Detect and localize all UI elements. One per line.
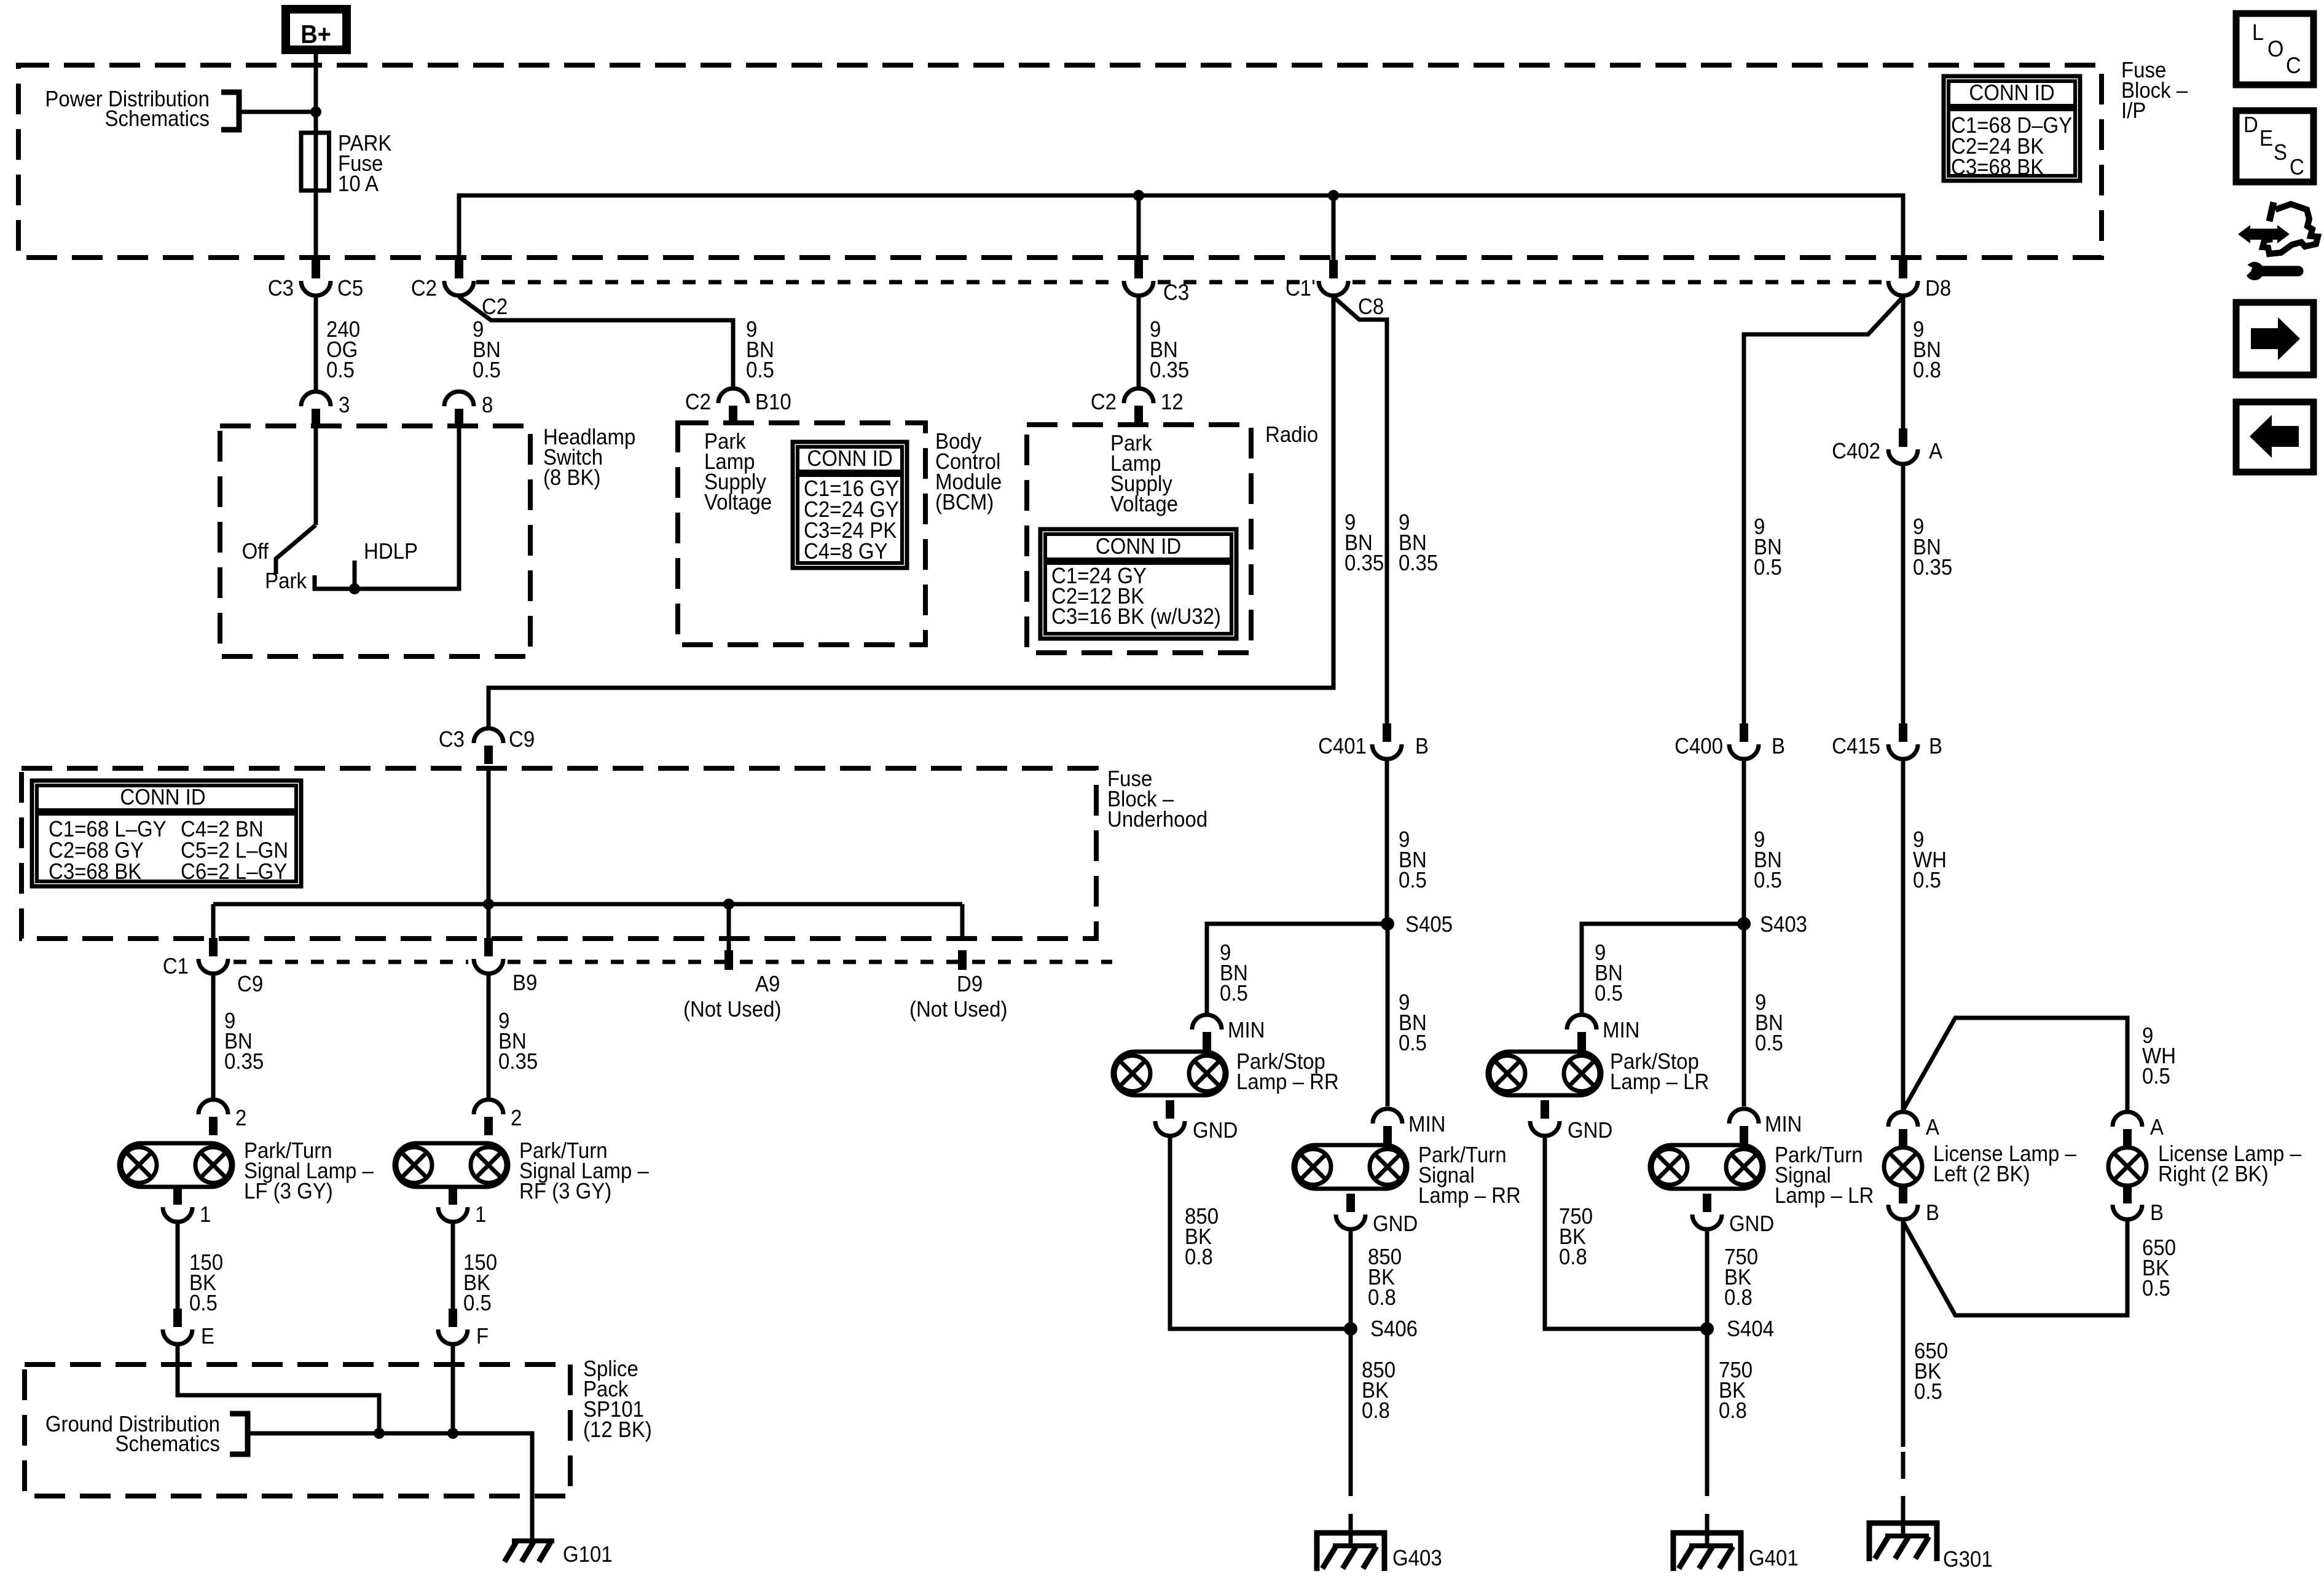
label 750 BK 0.8 right	[1724, 1245, 1758, 1310]
label C8	[1358, 295, 1384, 320]
svg-text:Left (2 BK): Left (2 BK)	[1933, 1162, 2030, 1187]
wire D8 to C400	[1744, 297, 1903, 724]
svg-text:3: 3	[339, 393, 350, 418]
connector D8	[1888, 260, 1918, 296]
svg-text:C5: C5	[337, 277, 363, 301]
park stop lamp LR	[1488, 1052, 1601, 1095]
svg-text:B: B	[1415, 734, 1429, 759]
label C415	[1832, 734, 1880, 759]
icon wrench	[2243, 262, 2298, 280]
label B10	[755, 390, 791, 415]
label Splice Pack SP101 (12 BK)	[583, 1357, 652, 1443]
svg-text:E: E	[2259, 127, 2273, 151]
wire junction to D9 drop	[960, 904, 965, 940]
svg-text:(Not Used): (Not Used)	[683, 998, 781, 1022]
label D8	[1925, 277, 1951, 301]
svg-text:S406: S406	[1370, 1317, 1418, 1342]
label GND stop RR	[1193, 1119, 1238, 1143]
wire C2 to BCM B10	[459, 297, 733, 390]
wire C3 to radio 12	[1137, 297, 1141, 390]
label 650 BK 0.5 left	[1914, 1339, 1948, 1404]
wire license right to left join	[1903, 1221, 2127, 1315]
wire bus drop to C1	[1332, 195, 1336, 261]
svg-text:CONN ID: CONN ID	[120, 786, 205, 810]
park turn signal lamp LR	[1650, 1145, 1764, 1189]
label park turn LF	[244, 1139, 374, 1204]
label 2 LF	[235, 1106, 246, 1131]
label B at C401	[1415, 734, 1429, 759]
svg-text:Schematics: Schematics	[105, 107, 210, 132]
label C5	[337, 277, 363, 301]
label E	[201, 1325, 214, 1349]
svg-text:RF (3 GY): RF (3 GY)	[519, 1179, 611, 1204]
svg-text:A9: A9	[755, 972, 780, 997]
svg-text:C6=2 L–GY: C6=2 L–GY	[181, 860, 287, 884]
conn id table underhood	[32, 781, 301, 886]
svg-text:0.8: 0.8	[1368, 1286, 1396, 1310]
connector E	[163, 1309, 192, 1344]
connector GND stop LR	[1530, 1100, 1560, 1136]
ground G301	[1869, 1523, 1937, 1561]
svg-text:C2: C2	[411, 277, 437, 301]
svg-text:0.5: 0.5	[326, 358, 355, 383]
wire C8 branch to C401	[1333, 297, 1387, 724]
bracket power distribution	[221, 92, 239, 130]
ground G101	[504, 1541, 554, 1562]
wire S404 to G401	[1705, 1329, 1710, 1530]
label C2 at 12	[1091, 390, 1117, 415]
label 650 BK 0.5 right	[2142, 1236, 2176, 1301]
connector B license left	[1888, 1184, 1918, 1219]
label C2 at B10	[685, 390, 711, 415]
label C3 radio feed	[1163, 281, 1189, 305]
svg-text:0.8: 0.8	[1719, 1399, 1747, 1423]
svg-text:GND: GND	[1729, 1212, 1774, 1237]
connector MIN park stop LR	[1567, 1015, 1596, 1050]
junction dot bus at C1	[1328, 190, 1339, 201]
headlamp switch dashed box	[220, 426, 530, 656]
connector 1 LF	[163, 1186, 192, 1222]
svg-text:L: L	[2252, 20, 2264, 45]
svg-text:C402: C402	[1832, 439, 1880, 464]
svg-text:0.35: 0.35	[1913, 556, 1952, 580]
ground distribution wire	[248, 1433, 532, 1541]
wire S403 to MIN turn LR	[1742, 924, 1746, 1106]
wire D8 to C402	[1901, 297, 1906, 430]
svg-text:G301: G301	[1943, 1548, 1993, 1572]
label C1 underhood	[163, 955, 189, 979]
svg-text:0.8: 0.8	[1185, 1245, 1213, 1270]
park turn signal lamp RR	[1294, 1145, 1407, 1189]
label C9 underhood	[237, 972, 263, 997]
junction line underhood	[213, 902, 962, 907]
label C3	[268, 277, 294, 301]
label Fuse Block - I/P	[2121, 58, 2188, 124]
connector pin 8	[444, 392, 474, 427]
svg-text:0.5: 0.5	[746, 358, 774, 383]
svg-text:2: 2	[511, 1106, 522, 1131]
label 850 BK 0.8 right	[1368, 1245, 1402, 1310]
svg-text:C3: C3	[439, 728, 465, 752]
svg-text:Underhood: Underhood	[1107, 808, 1207, 832]
wire S405 to MIN park stop RR	[1207, 924, 1388, 1013]
park turn signal lamp RF	[395, 1143, 508, 1187]
svg-text:S405: S405	[1405, 913, 1453, 937]
svg-text:Lamp – RR: Lamp – RR	[1418, 1184, 1521, 1208]
label 9 BN 0.5 stop LR	[1595, 941, 1623, 1006]
wire B9 to RF lamp	[487, 975, 491, 1100]
connector C401/B	[1372, 723, 1402, 759]
connector MIN park stop RR	[1192, 1015, 1222, 1050]
bus wire park lamp feed	[459, 195, 1903, 261]
label G101	[563, 1543, 613, 1567]
svg-text:C415: C415	[1832, 734, 1880, 759]
label 1 RF	[475, 1203, 486, 1227]
svg-text:0.5: 0.5	[2142, 1277, 2170, 1301]
label G401	[1749, 1546, 1799, 1571]
svg-text:C9: C9	[237, 972, 263, 997]
license lamp right	[2108, 1148, 2146, 1186]
icon box LOC	[2236, 14, 2314, 85]
icon box arrow left	[2236, 402, 2314, 472]
svg-text:D9: D9	[957, 972, 983, 997]
svg-text:C2: C2	[1091, 390, 1117, 415]
label C9	[509, 728, 535, 752]
svg-text:Lamp – LR: Lamp – LR	[1775, 1184, 1874, 1208]
wire C400 to S403	[1742, 760, 1746, 924]
connector C402/A	[1888, 428, 1918, 464]
label 9 BN 0.5 C400-S403	[1754, 828, 1782, 893]
svg-text:0.5: 0.5	[473, 358, 501, 383]
svg-text:MIN: MIN	[1603, 1018, 1639, 1043]
svg-text:B: B	[1926, 1201, 1939, 1226]
svg-text:0.5: 0.5	[1914, 1380, 1942, 1404]
svg-text:Off: Off	[242, 540, 269, 564]
junction dot splice E	[374, 1428, 385, 1439]
svg-text:G101: G101	[563, 1543, 613, 1567]
label A left	[1926, 1116, 1940, 1140]
connector 12	[1124, 388, 1153, 424]
svg-text:0.8: 0.8	[1724, 1286, 1753, 1310]
label Off	[242, 540, 269, 564]
label 150 BK 0.5 RF	[463, 1251, 497, 1316]
label 12	[1161, 390, 1184, 415]
svg-text:Radio: Radio	[1265, 423, 1318, 447]
label 9 BN 0.8	[1913, 318, 1941, 383]
wire LF lamp to E	[176, 1223, 180, 1309]
park turn signal lamp LF	[119, 1143, 233, 1187]
svg-text:0.35: 0.35	[224, 1050, 264, 1074]
svg-text:C9: C9	[509, 728, 535, 752]
label C400	[1674, 734, 1723, 759]
wire S406 to G403	[1349, 1329, 1353, 1530]
ground G403	[1317, 1533, 1384, 1571]
svg-text:D: D	[2244, 113, 2258, 138]
label 3	[339, 393, 350, 418]
label B right	[2150, 1201, 2164, 1226]
svg-text:C3=68 BK: C3=68 BK	[1951, 156, 2044, 180]
wire B+ down into fuse block	[314, 54, 318, 133]
label 9 BN 0.35 RF	[498, 1009, 538, 1074]
icon box DESC	[2236, 111, 2314, 182]
connector A license left	[1888, 1112, 1918, 1148]
svg-text:CONN ID: CONN ID	[1096, 535, 1181, 559]
label B at C415	[1929, 734, 1942, 759]
label 9 BN 0.5 C401-S405	[1399, 828, 1427, 893]
svg-text:0.35: 0.35	[498, 1050, 538, 1074]
splice S406	[1344, 1322, 1357, 1336]
label park turn RR	[1418, 1143, 1521, 1208]
wire RF lamp to F	[451, 1223, 455, 1309]
label 750 BK 0.8 ground	[1719, 1358, 1753, 1423]
junction dot park wire	[349, 583, 360, 594]
svg-text:B: B	[1929, 734, 1942, 759]
label 150 BK 0.5 LF	[189, 1251, 223, 1316]
label B9	[512, 971, 537, 996]
label S403	[1760, 913, 1807, 937]
svg-text:LF (3 GY): LF (3 GY)	[244, 1179, 333, 1204]
connector C3/C5	[301, 260, 331, 296]
connector B10	[718, 388, 748, 424]
label wire 9 BN 0.35 radio	[1150, 318, 1189, 383]
icon adjust arrow	[2238, 225, 2290, 243]
svg-text:0.5: 0.5	[189, 1291, 218, 1316]
label 9 BN 0.35 C402	[1913, 515, 1952, 580]
wire C5 to switch pin 3	[314, 297, 318, 390]
label A at C402	[1929, 439, 1943, 464]
svg-text:B: B	[1772, 734, 1785, 759]
svg-text:Right (2 BK): Right (2 BK)	[2158, 1162, 2269, 1187]
splice S405	[1381, 917, 1394, 931]
junction dot underhood A9	[723, 899, 734, 910]
fuse PARK 10A	[301, 133, 329, 191]
wire C1 down and left to C9	[489, 297, 1333, 728]
svg-text:1: 1	[200, 1203, 211, 1227]
label wire 9 BN 0.5 B10	[746, 318, 774, 383]
label license lamp left	[1933, 1142, 2077, 1187]
svg-text:0.5: 0.5	[1399, 1031, 1427, 1056]
label 9 BN 0.35 C9 wire	[1345, 511, 1384, 576]
svg-text:C: C	[2286, 53, 2301, 79]
stub A9 not used	[724, 950, 733, 970]
label S405	[1405, 913, 1453, 937]
svg-text:GND: GND	[1568, 1119, 1612, 1143]
switch wiper to Off	[276, 525, 316, 574]
svg-text:B9: B9	[512, 971, 537, 996]
label C3 at C9	[439, 728, 465, 752]
svg-text:C2: C2	[685, 390, 711, 415]
label park stop LR	[1610, 1050, 1709, 1095]
wire license left to G301	[1901, 1221, 1906, 1521]
label 850 BK 0.8 ground	[1362, 1358, 1396, 1423]
label 9 WH 0.5 left	[1913, 828, 1947, 893]
svg-text:S: S	[2274, 141, 2287, 165]
connector 2 LF	[198, 1100, 228, 1135]
wire F into splice pack	[451, 1345, 455, 1433]
svg-text:0.8: 0.8	[1913, 358, 1941, 383]
svg-text:B+: B+	[300, 20, 331, 49]
label Park	[265, 569, 307, 594]
label wire 240 OG 0.5	[326, 318, 360, 383]
HDLP contact tick	[353, 561, 357, 589]
svg-text:S404: S404	[1727, 1317, 1774, 1342]
svg-text:Park: Park	[265, 569, 307, 594]
svg-text:(Not Used): (Not Used)	[909, 998, 1007, 1022]
svg-text:D8: D8	[1925, 277, 1951, 301]
label MIN turn RR	[1408, 1112, 1445, 1137]
label 850 BK 0.8 left	[1185, 1205, 1219, 1270]
label D9	[957, 972, 983, 997]
ground G401	[1673, 1533, 1741, 1571]
label C401	[1318, 734, 1367, 759]
label Body Control Module BCM	[935, 430, 1002, 515]
label park turn LR	[1775, 1143, 1874, 1208]
label 9 WH 0.5 right	[2142, 1024, 2176, 1089]
connector C400/B	[1729, 723, 1759, 759]
label D9 not used	[909, 998, 1007, 1022]
svg-text:B: B	[2150, 1201, 2164, 1226]
svg-text:(12 BK): (12 BK)	[583, 1418, 652, 1443]
svg-text:0.35: 0.35	[1399, 551, 1438, 576]
connector A license right	[2113, 1112, 2142, 1148]
label C2 left	[411, 277, 437, 301]
svg-text:12: 12	[1161, 390, 1184, 415]
label Fuse Block - Underhood	[1107, 767, 1207, 832]
wire pin 3 into switch	[314, 426, 318, 525]
connector B license right	[2113, 1184, 2142, 1219]
wire junction to B9 drop	[487, 904, 491, 940]
wire C9 into underhood box	[474, 728, 503, 764]
label B left	[1926, 1201, 1939, 1226]
icon box arrow right	[2236, 302, 2314, 375]
wire C401 to S405	[1385, 760, 1389, 924]
svg-text:GND: GND	[1193, 1119, 1238, 1143]
wire branch to license right top	[1903, 1018, 2127, 1110]
label park stop RR	[1236, 1050, 1339, 1095]
svg-text:S403: S403	[1760, 913, 1807, 937]
label GND turn RR	[1373, 1212, 1418, 1237]
svg-text:A: A	[2150, 1116, 2164, 1140]
wire S405 to MIN turn RR	[1386, 924, 1390, 1106]
splice pack dashed box	[25, 1364, 570, 1496]
label C1	[1286, 277, 1311, 301]
svg-text:Schematics: Schematics	[116, 1432, 220, 1457]
svg-text:1: 1	[475, 1203, 486, 1227]
label license lamp right	[2158, 1142, 2302, 1187]
park stop lamp RR	[1113, 1052, 1227, 1095]
junction dot underhood C9	[483, 899, 494, 910]
BCM dashed box	[678, 423, 925, 645]
svg-text:10 A: 10 A	[338, 172, 379, 197]
label Park Lamp Supply Voltage BCM	[704, 430, 772, 515]
svg-text:A: A	[1929, 439, 1943, 464]
svg-text:C3: C3	[268, 277, 294, 301]
svg-text:I/P: I/P	[2121, 99, 2146, 124]
label Ground Distribution Schematics	[45, 1412, 220, 1457]
wire C415 to license left	[1901, 760, 1906, 1110]
svg-text:GND: GND	[1373, 1212, 1418, 1237]
splice S404	[1700, 1322, 1714, 1336]
connector C1/C8	[1319, 260, 1348, 296]
label Headlamp Switch (8 BK)	[543, 425, 635, 490]
conn id table radio	[1040, 529, 1236, 639]
label S404	[1727, 1317, 1774, 1342]
wire fuse to C5 connector	[314, 191, 318, 261]
label A9 not used	[683, 998, 781, 1022]
label B at C400	[1772, 734, 1785, 759]
svg-text:Lamp – RR: Lamp – RR	[1236, 1070, 1339, 1095]
label A right	[2150, 1116, 2164, 1140]
battery feed symbol B+	[286, 9, 347, 50]
connector GND stop RR	[1155, 1100, 1185, 1136]
svg-text:Voltage: Voltage	[1110, 492, 1178, 517]
junction dot at B+ feed	[310, 106, 321, 117]
svg-text:8: 8	[482, 393, 493, 418]
svg-text:Voltage: Voltage	[704, 490, 772, 515]
wire E into splice pack	[178, 1345, 379, 1433]
svg-text:(BCM): (BCM)	[935, 490, 994, 515]
connector B9	[474, 938, 503, 974]
svg-text:C3=68 BK: C3=68 BK	[49, 860, 141, 884]
conn id table fuse block I/P	[1944, 76, 2080, 181]
svg-text:C: C	[2290, 156, 2304, 180]
svg-text:0.5: 0.5	[2142, 1065, 2170, 1089]
conn id table BCM	[793, 442, 907, 568]
park contact and wire to pin 8	[315, 426, 459, 589]
stub license left bottom	[1899, 1186, 1907, 1203]
label 8	[482, 393, 493, 418]
svg-text:2: 2	[235, 1106, 246, 1131]
label G403	[1392, 1546, 1442, 1571]
connector C1/C9 underhood	[198, 938, 228, 974]
svg-text:0.8: 0.8	[1362, 1399, 1390, 1423]
svg-text:CONN ID: CONN ID	[1969, 81, 2054, 106]
label Radio	[1265, 423, 1318, 447]
label 9 BN 0.5 turn LR	[1755, 991, 1783, 1056]
label Park Lamp Supply Voltage radio	[1110, 431, 1178, 517]
wire GND turn LR to S404	[1705, 1231, 1710, 1329]
svg-text:C401: C401	[1318, 734, 1367, 759]
svg-text:0.8: 0.8	[1559, 1245, 1587, 1270]
label GND stop LR	[1568, 1119, 1612, 1143]
stub license right bottom	[2123, 1186, 2132, 1203]
fuse block I/P dashed box	[18, 65, 2102, 258]
license lamp left	[1884, 1148, 1922, 1186]
wire GND stop LR to S404	[1545, 1137, 1707, 1329]
label park turn RF	[519, 1139, 650, 1204]
svg-text:C4=8 GY: C4=8 GY	[804, 540, 888, 564]
connector MIN turn LR	[1729, 1109, 1759, 1144]
svg-text:0.5: 0.5	[1754, 868, 1782, 893]
svg-text:C1: C1	[1286, 277, 1311, 301]
wire GND stop RR to S406	[1170, 1137, 1351, 1329]
svg-text:E: E	[201, 1325, 214, 1349]
connector pin 3	[301, 392, 331, 427]
connector C3 radio feed	[1124, 260, 1153, 296]
svg-text:0.5: 0.5	[1755, 1031, 1783, 1056]
label HDLP	[364, 540, 418, 564]
wire C9 to junction line	[487, 768, 491, 904]
label S406	[1370, 1317, 1418, 1342]
label MIN turn LR	[1765, 1112, 1802, 1137]
connector C2 fuse block	[444, 260, 474, 296]
svg-text:B10: B10	[755, 390, 791, 415]
svg-text:(8 BK): (8 BK)	[543, 466, 600, 490]
connector C415/B	[1888, 723, 1918, 759]
label 9 BN 0.5 C400 upper	[1754, 515, 1782, 580]
svg-text:MIN: MIN	[1765, 1112, 1802, 1137]
label MIN stop LR	[1603, 1018, 1639, 1043]
